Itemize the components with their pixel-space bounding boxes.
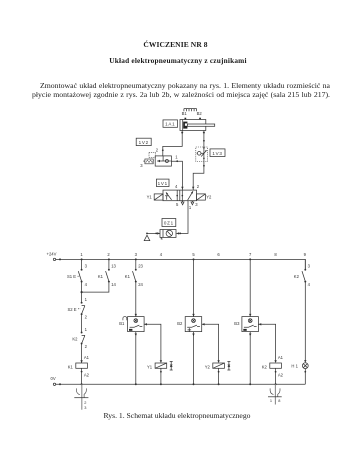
svg-text:4: 4 [85,282,88,287]
svg-text:K2: K2 [294,274,300,279]
svg-text:24: 24 [138,282,143,287]
svg-text:2: 2 [107,252,110,257]
svg-text:K1: K1 [98,274,104,279]
svg-text:5: 5 [192,252,195,257]
svg-text:A1: A1 [84,355,90,360]
svg-text:6: 6 [217,252,220,257]
svg-text:0V: 0V [51,376,56,381]
svg-text:Y1: Y1 [147,364,153,369]
svg-text:1V1: 1V1 [158,181,168,186]
svg-text:5: 5 [176,202,179,207]
svg-text:H 1: H 1 [291,363,298,368]
svg-text:1: 1 [270,398,272,403]
svg-text:K2: K2 [72,336,78,341]
svg-text:3: 3 [195,202,198,207]
svg-text:B2: B2 [197,111,203,116]
svg-text:0Z1: 0Z1 [164,221,174,226]
svg-text:3: 3 [140,163,143,168]
svg-text:4: 4 [175,184,178,189]
svg-text:A2: A2 [84,373,90,378]
svg-text:A1: A1 [278,355,284,360]
svg-text:3: 3 [308,264,311,269]
svg-text:1A1: 1A1 [165,122,175,127]
svg-text:S1 E: S1 E [67,274,76,279]
svg-text:K1: K1 [68,364,74,369]
svg-text:B1: B1 [182,111,188,116]
svg-text:1: 1 [85,297,88,302]
svg-text:+24V: +24V [47,252,57,257]
svg-text:1V3: 1V3 [212,151,222,156]
svg-text:2: 2 [85,344,88,349]
svg-text:Y2: Y2 [205,364,211,369]
svg-text:Y2: Y2 [206,195,212,200]
svg-text:Y1: Y1 [147,195,153,200]
svg-text:B2: B2 [177,321,183,326]
svg-text:14: 14 [111,282,116,287]
svg-text:1: 1 [175,154,178,159]
svg-text:K1: K1 [125,274,131,279]
svg-text:8: 8 [278,398,280,403]
svg-text:1V2: 1V2 [139,140,149,145]
svg-text:3: 3 [135,252,138,257]
svg-text:8: 8 [274,252,277,257]
svg-text:2: 2 [156,148,159,153]
svg-text:3: 3 [84,405,86,410]
svg-text:K2: K2 [262,364,268,369]
svg-text:2: 2 [85,315,88,320]
svg-text:3: 3 [85,264,88,269]
svg-text:B3: B3 [234,321,240,326]
svg-text:1: 1 [85,327,88,332]
svg-text:9: 9 [304,252,307,257]
svg-text:13: 13 [111,264,116,269]
svg-text:4: 4 [160,252,163,257]
svg-text:23: 23 [138,264,143,269]
svg-text:S2 E: S2 E [68,307,77,312]
svg-text:2: 2 [197,184,200,189]
svg-text:A2: A2 [278,373,284,378]
svg-text:7: 7 [249,252,252,257]
svg-text:1: 1 [80,252,83,257]
svg-text:B1: B1 [119,321,125,326]
svg-text:4: 4 [308,282,311,287]
svg-text:1: 1 [189,205,192,210]
